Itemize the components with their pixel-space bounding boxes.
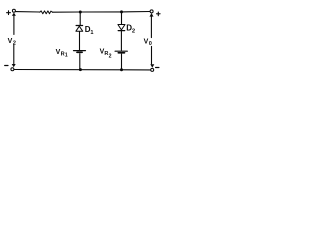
- wire: [122, 11, 151, 13]
- wire: [53, 11, 81, 13]
- plus sign input: [7, 11, 11, 15]
- svg-text:2: 2: [109, 53, 112, 59]
- wire VR2 to bottom: [121, 54, 123, 70]
- resistor R: [40, 11, 53, 14]
- node junction D1 bottom: [79, 68, 82, 71]
- node junction D2 top: [120, 10, 123, 13]
- svg-text:2: 2: [132, 28, 135, 34]
- svg-text:V: V: [8, 38, 13, 45]
- wire bottom rail: [14, 69, 151, 71]
- arrow Vo bottom: [151, 46, 153, 64]
- diode D1 branch wire: [79, 13, 81, 25]
- svg-text:1: 1: [90, 30, 93, 36]
- wire: [16, 11, 40, 13]
- diode D1 triangle: [76, 26, 83, 31]
- battery VR2 short plate: [118, 52, 124, 54]
- wire: [80, 11, 121, 13]
- terminal bottom-right: [151, 68, 154, 71]
- arrow V2 bottom: [13, 45, 15, 64]
- plus sign output: [157, 12, 161, 16]
- svg-text:2: 2: [13, 41, 16, 47]
- arrow Vo top: [150, 13, 154, 17]
- diode D2 triangle: [118, 25, 125, 30]
- wire D2 to VR2: [120, 31, 122, 50]
- terminal bottom-left: [11, 68, 14, 71]
- diode D2 cathode bar: [118, 30, 125, 32]
- node junction D1 top: [79, 11, 82, 14]
- minus sign input: [5, 65, 8, 67]
- minus sign output: [156, 67, 159, 69]
- terminal top-left: [12, 9, 15, 12]
- diode D2 branch wire: [121, 13, 123, 24]
- svg-text:1: 1: [65, 52, 68, 58]
- diode D1 cathode bar: [76, 25, 83, 27]
- battery VR2 long plate: [115, 50, 127, 52]
- node junction D2 bottom: [120, 68, 123, 71]
- wire D1 to VR1: [79, 32, 81, 50]
- battery VR1 long plate: [74, 50, 86, 52]
- wire VR1 to bottom: [79, 54, 81, 70]
- arrow V2 top: [12, 13, 16, 16]
- terminal top-right: [150, 10, 153, 13]
- battery VR1 short plate: [77, 51, 82, 53]
